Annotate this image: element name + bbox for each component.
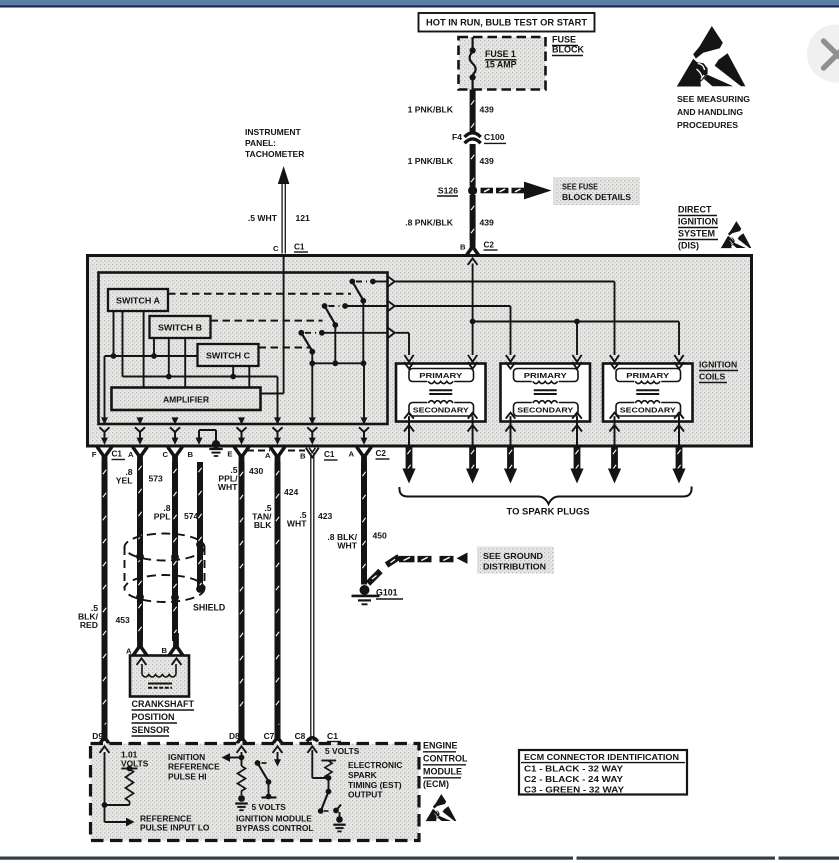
wire: coil drive 2 (to coil 2) (345, 301, 515, 362)
svg-text:SECONDARY: SECONDARY (620, 406, 676, 415)
svg-text:CONTROL: CONTROL (423, 754, 468, 764)
svg-text:PANEL:: PANEL: (245, 138, 276, 148)
svg-text:424: 424 (284, 487, 299, 497)
svg-text:B: B (187, 450, 193, 459)
svg-text:CRANKSHAFT: CRANKSHAFT (132, 699, 195, 709)
svg-text:F4: F4 (452, 132, 462, 142)
svg-text:B: B (300, 452, 306, 461)
wire: fuse to C100, 1 PNK/BLK 439 (471, 90, 474, 133)
wire label .5 WHT 423 (287, 510, 333, 529)
svg-text:C: C (162, 450, 168, 459)
DIS module box (88, 256, 752, 447)
svg-text:PULSE HI: PULSE HI (168, 772, 207, 782)
ignition coil 2 (501, 362, 591, 421)
wire: switch A to amplifier (143, 311, 145, 388)
ESD note text (677, 94, 750, 130)
svg-text:DISTRIBUTION: DISTRIBUTION (483, 562, 546, 572)
wire: DIS A C2 to ground, .8 BLK/WHT 450 (362, 462, 365, 585)
wire: DIS pin C to tachometer, .5 WHT 121 (double line) (282, 181, 285, 254)
wire: switch B to bus1 (153, 338, 155, 356)
svg-text:A: A (128, 450, 134, 459)
svg-text:C1 - BLACK - 32 WAY: C1 - BLACK - 32 WAY (524, 765, 624, 774)
wire: pivot bus (309, 301, 366, 366)
wire: DIS E to ECM D8, .5 PPL/WHT 430 (240, 462, 243, 741)
svg-text:(DIS): (DIS) (678, 241, 699, 251)
svg-text:C8: C8 (295, 731, 306, 741)
ignition coil 3 (603, 362, 693, 421)
svg-text:C1: C1 (112, 450, 123, 459)
wire: coil drive 1 (to coil 3) (373, 277, 619, 362)
ECM C8 EST output (307, 746, 341, 819)
svg-text:YEL: YEL (116, 476, 133, 486)
svg-text:PROCEDURES: PROCEDURES (677, 120, 738, 130)
to spark plugs label (507, 507, 590, 517)
svg-text:VOLTS: VOLTS (121, 759, 149, 769)
fuse F1 15A (470, 37, 476, 90)
svg-text:573: 573 (149, 474, 164, 484)
svg-text:TO SPARK PLUGS: TO SPARK PLUGS (507, 507, 590, 517)
wire: coil drive 3 (to coil 1) (322, 328, 414, 362)
svg-text:5 VOLTS: 5 VOLTS (325, 746, 360, 756)
shield (dashed cylinder) (125, 534, 205, 603)
engine control module box (91, 744, 420, 841)
wire: C100 to S126, 1 PNK/BLK 439 (471, 144, 474, 187)
svg-text:TACHOMETER: TACHOMETER (245, 149, 304, 159)
svg-text:POSITION: POSITION (132, 712, 175, 722)
ground symbol (DIS case) (209, 449, 222, 456)
bottom table border (0, 857, 839, 860)
wire label .5 PPL/WHT 430 (218, 465, 264, 492)
svg-text:439: 439 (480, 156, 495, 166)
label EST output (348, 760, 402, 800)
ESD susceptibility symbol (677, 26, 746, 87)
svg-text:BLOCK: BLOCK (552, 45, 584, 55)
svg-text:SEE MEASURING: SEE MEASURING (677, 94, 750, 104)
label 1.01 volts (121, 750, 149, 769)
svg-text:5 VOLTS: 5 VOLTS (252, 802, 287, 812)
spark output wires coil 2 (504, 416, 584, 483)
svg-text:.8 PNK/BLK: .8 PNK/BLK (405, 218, 454, 228)
svg-text:C: C (273, 244, 279, 253)
small ESD triangle (DIS) (721, 221, 752, 248)
svg-text:BLOCK DETAILS: BLOCK DETAILS (562, 192, 631, 202)
svg-text:SYSTEM: SYSTEM (678, 229, 715, 239)
spark output wires coil 3 (608, 416, 686, 483)
svg-text:C2 - BLACK - 24 WAY: C2 - BLACK - 24 WAY (524, 775, 624, 784)
svg-text:PULSE INPUT LO: PULSE INPUT LO (140, 823, 210, 833)
svg-text:WHT: WHT (337, 541, 357, 551)
wire: switch B to bus2 (168, 338, 170, 377)
svg-text:SECONDARY: SECONDARY (517, 406, 573, 415)
close button top right (807, 25, 839, 83)
wire: internal bus 2 (123, 374, 278, 424)
svg-text:ELECTRONIC: ELECTRONIC (348, 760, 402, 770)
ECM label (423, 741, 468, 790)
wire label .8 PNK/BLK 439 (405, 218, 494, 228)
brace to spark plugs (399, 487, 691, 505)
switch contact 2 (322, 303, 348, 328)
top blue toolbar edge (0, 0, 839, 8)
wire: DIS B shield drain (198, 462, 201, 589)
svg-text:1 PNK/BLK: 1 PNK/BLK (408, 156, 454, 166)
ground symbol (D8) (235, 804, 248, 811)
svg-text:1 PNK/BLK: 1 PNK/BLK (408, 105, 454, 115)
svg-text:BYPASS CONTROL: BYPASS CONTROL (236, 823, 314, 833)
fuse block box (459, 37, 546, 90)
label 5 volts (bypass supply) (252, 802, 287, 812)
switch contact 1 (349, 279, 375, 304)
svg-text:A: A (265, 451, 271, 460)
control line switch A (dashed) (168, 293, 351, 295)
svg-text:WHT: WHT (218, 482, 238, 492)
svg-text:SPARK: SPARK (348, 770, 377, 780)
svg-text:IGNITION: IGNITION (699, 360, 737, 370)
svg-text:INSTRUMENT: INSTRUMENT (245, 127, 302, 137)
svg-text:FUSE 1: FUSE 1 (485, 49, 516, 59)
svg-text:S126: S126 (438, 186, 458, 196)
svg-text:574: 574 (184, 511, 199, 521)
svg-text:PRIMARY: PRIMARY (626, 371, 669, 380)
note: SEE GROUND DISTRIBUTION (477, 547, 554, 574)
svg-text:SHIELD: SHIELD (193, 603, 225, 613)
svg-text:C3 - GREEN - 32 WAY: C3 - GREEN - 32 WAY (524, 786, 625, 795)
ignition coils label (699, 360, 738, 383)
svg-text:COILS: COILS (699, 372, 726, 382)
svg-text:C1: C1 (324, 450, 335, 459)
svg-text:B: B (460, 243, 466, 252)
wire: DIS F to ECM D9, .5 BLK/RED 453 (103, 462, 106, 741)
ground symbol (EST) (333, 816, 345, 831)
svg-text:SWITCH A: SWITCH A (116, 296, 160, 305)
svg-text:G101: G101 (376, 588, 398, 598)
label ignition reference pulse hi (168, 752, 220, 782)
svg-text:C7: C7 (264, 731, 275, 741)
svg-text:.5 WHT: .5 WHT (248, 213, 278, 223)
spark output wires coil 1 (402, 416, 479, 483)
svg-text:SWITCH C: SWITCH C (206, 351, 250, 360)
svg-text:ENGINE: ENGINE (423, 741, 458, 751)
pin letters bottom row (92, 449, 390, 461)
switch C box (198, 344, 259, 366)
wire: DIS A to CKP sensor A, .8 YEL 573 (138, 462, 141, 641)
svg-text:BLK: BLK (254, 520, 272, 530)
ECM D8 ignition reference (222, 746, 247, 802)
wire: DIS C to CKP sensor B, .8 PPL 574 (173, 462, 176, 641)
svg-text:A: A (348, 450, 354, 459)
svg-text:450: 450 (373, 531, 388, 541)
switch A box (108, 289, 168, 311)
svg-text:HOT IN RUN, BULB TEST OR START: HOT IN RUN, BULB TEST OR START (426, 18, 587, 28)
dashed arrow to ground distribution (368, 553, 468, 584)
svg-text:TIMING (EST): TIMING (EST) (348, 780, 402, 790)
control line switch B (dashed) (211, 320, 323, 322)
svg-text:REFERENCE: REFERENCE (168, 762, 220, 772)
svg-text:SECONDARY: SECONDARY (413, 406, 469, 415)
connector C1 dashed outline (247, 450, 305, 452)
crankshaft position sensor label (132, 699, 195, 736)
fuse value label (485, 49, 517, 70)
DIS system label (678, 205, 718, 251)
note: SEE FUSE BLOCK DETAILS (553, 177, 640, 205)
svg-text:MODULE: MODULE (423, 767, 462, 777)
svg-text:SWITCH B: SWITCH B (158, 323, 202, 332)
wire: pivot bus to pin A C2 (bypass) (363, 363, 365, 424)
control line switch C (dashed) (259, 347, 311, 349)
ground G101 (352, 585, 404, 604)
shield label (193, 603, 225, 613)
svg-text:AMPLIFIER: AMPLIFIER (163, 395, 209, 404)
svg-text:C2: C2 (484, 241, 495, 250)
connector C100 pin F4 (452, 132, 506, 143)
svg-text:PPL: PPL (154, 512, 171, 522)
svg-text:F: F (92, 450, 97, 459)
svg-text:(ECM): (ECM) (423, 779, 449, 789)
wire label .5 TAN/BLK 424 (252, 487, 298, 530)
svg-text:OUTPUT: OUTPUT (348, 790, 383, 800)
wire label 1 PNK/BLK 439 (408, 156, 494, 166)
resistor 1.01 volts (105, 766, 138, 805)
svg-text:DIRECT: DIRECT (678, 205, 712, 215)
svg-text:IGNITION MODULE: IGNITION MODULE (236, 814, 312, 824)
wire label 1 PNK/BLK 439 (408, 105, 494, 115)
ECM pins at box top (97, 725, 318, 748)
switch contact 3 (298, 330, 324, 355)
svg-text:SEE FUSE: SEE FUSE (562, 182, 598, 192)
label 5 volts (EST supply) (325, 746, 360, 756)
wire label .8 PPL 574 (154, 503, 199, 522)
svg-text:SENSOR: SENSOR (132, 725, 171, 735)
svg-text:PRIMARY: PRIMARY (419, 371, 462, 380)
svg-text:SEE GROUND: SEE GROUND (483, 551, 543, 561)
wire: tach signal from amplifier (261, 254, 284, 394)
svg-text:C2: C2 (376, 449, 387, 458)
svg-text:C1: C1 (294, 243, 305, 252)
splice S126 (437, 186, 477, 197)
case ground loop pin B (196, 430, 221, 448)
ignition coil 1 (396, 362, 486, 421)
wire: DIS A to ECM C7, .5 TAN/BLK 424 (276, 462, 279, 741)
wire label .8 BLK/WHT 450 (327, 531, 387, 551)
fuse block label (552, 35, 584, 56)
svg-text:IGNITION: IGNITION (168, 752, 205, 762)
svg-text:IGNITION: IGNITION (678, 217, 718, 227)
svg-text:121: 121 (296, 213, 311, 223)
wire: S126 to DIS pin B, .8 PNK/BLK 439 (471, 195, 474, 240)
svg-text:15 AMP: 15 AMP (485, 60, 517, 70)
svg-text:AND HANDLING: AND HANDLING (677, 107, 743, 117)
svg-text:WHT: WHT (287, 519, 307, 529)
wire: switch A to bus2 (122, 311, 124, 377)
label ignition module bypass control (236, 814, 314, 834)
svg-text:430: 430 (249, 466, 264, 476)
arrow to tachometer (278, 166, 290, 184)
wire: switch C to amplifier (248, 366, 250, 388)
wire: DIS B to ECM C8, .5 WHT 423 (double line) (311, 453, 314, 741)
ECM pin labels top (92, 731, 341, 742)
label reference pulse input lo (140, 814, 210, 833)
switch B box (150, 316, 211, 338)
amplifier box (112, 388, 261, 411)
svg-text:439: 439 (480, 218, 495, 228)
instrument panel tachometer label (245, 127, 304, 159)
wire label .5 WHT 121 (248, 213, 310, 223)
svg-text:439: 439 (480, 105, 495, 115)
DIS top connector pin B / C2 (460, 234, 498, 257)
svg-text:ECM CONNECTOR IDENTIFICATION: ECM CONNECTOR IDENTIFICATION (524, 753, 679, 762)
DIS inner electronics box (99, 273, 388, 425)
power label: HOT IN RUN, BULB TEST OR START (419, 13, 595, 32)
wire label .8 YEL 573 (116, 467, 163, 486)
svg-text:FUSE: FUSE (552, 35, 576, 45)
svg-text:A: A (126, 647, 132, 656)
wire: pivot bus to pin B (EST) (311, 363, 313, 424)
wire: switch C to bus2 (232, 366, 234, 377)
ECM connector identification table (519, 750, 687, 795)
wire: internal bus 1 (105, 353, 198, 424)
wire label .5 BLK/RED 453 (78, 603, 130, 630)
svg-text:C1: C1 (327, 731, 338, 741)
ECM C7 bypass driver (255, 746, 283, 799)
svg-text:423: 423 (318, 511, 333, 521)
wire: ignition feed to coils (468, 258, 684, 362)
DIS bottom connector pins (97, 447, 371, 470)
wire: switch B to amplifier (184, 338, 186, 388)
svg-text:B: B (161, 646, 167, 655)
svg-text:PRIMARY: PRIMARY (524, 371, 567, 380)
dashed arrow to fuse block details (481, 182, 552, 200)
svg-text:RED: RED (80, 620, 98, 630)
crankshaft position sensor box (130, 656, 189, 697)
wire: switch A to bus1 (113, 311, 115, 356)
svg-text:E: E (227, 450, 232, 459)
CKP sensor pins A B (126, 633, 183, 656)
small ESD triangle (ECM) (426, 794, 457, 821)
ECM D9 reference input (100, 746, 135, 826)
connector drops inner box to DIS shell (100, 417, 370, 444)
DIS top connector pin C / C1 (273, 243, 308, 263)
svg-text:453: 453 (116, 615, 131, 625)
svg-text:C100: C100 (484, 132, 505, 142)
